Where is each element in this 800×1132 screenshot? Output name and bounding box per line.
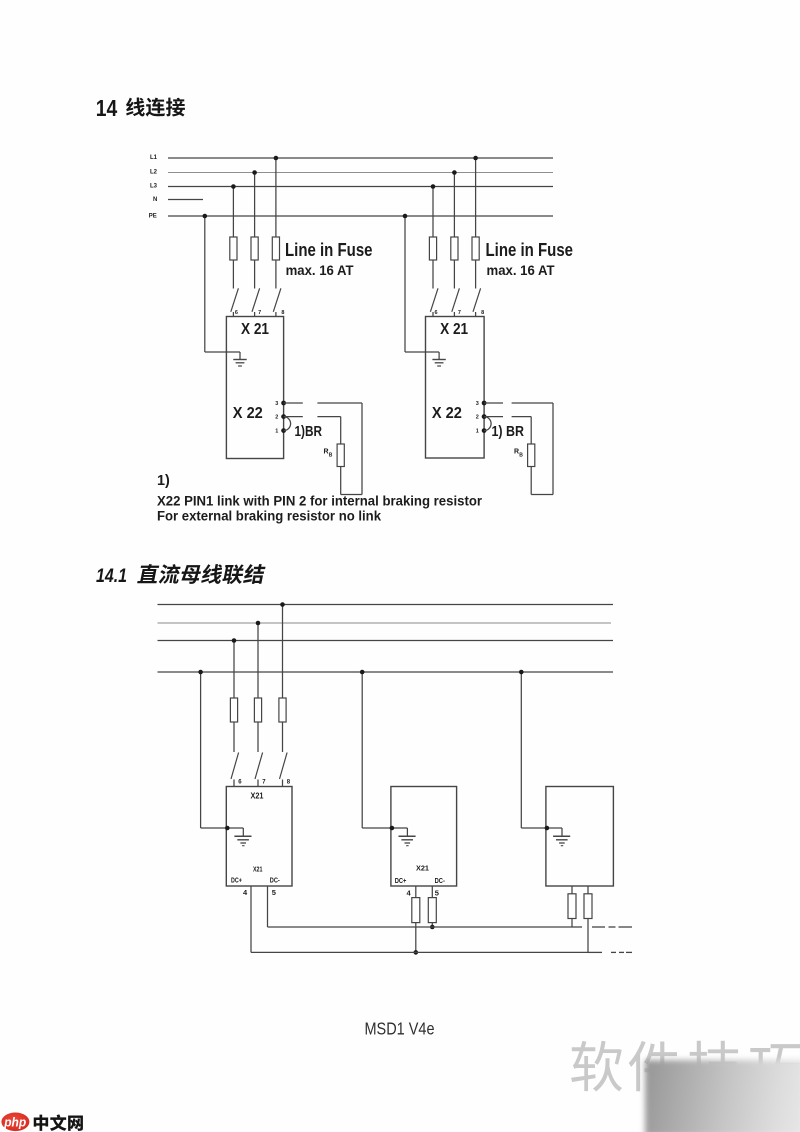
svg-text:1: 1: [275, 428, 278, 434]
svg-text:6: 6: [238, 780, 242, 786]
svg-text:Line in Fuse: Line in Fuse: [486, 240, 574, 260]
svg-text:2: 2: [275, 414, 278, 420]
svg-text:1) BR: 1) BR: [492, 424, 525, 440]
svg-text:DC+: DC+: [231, 877, 242, 884]
svg-text:14: 14: [96, 95, 118, 121]
svg-text:L3: L3: [150, 184, 158, 190]
svg-text:DC+: DC+: [395, 878, 407, 885]
svg-text:6: 6: [435, 310, 438, 316]
svg-text:7: 7: [262, 780, 266, 786]
svg-text:3: 3: [275, 401, 278, 407]
svg-text:N: N: [153, 197, 157, 203]
svg-text:X21: X21: [251, 792, 265, 801]
svg-text:7: 7: [258, 310, 261, 316]
svg-text:1)BR: 1)BR: [295, 424, 323, 440]
svg-text:3: 3: [476, 401, 479, 407]
svg-text:5: 5: [272, 888, 276, 897]
svg-text:X22 PIN1 link with PIN 2 for i: X22 PIN1 link with PIN 2 for internal br…: [157, 494, 483, 509]
svg-text:7: 7: [458, 310, 461, 316]
svg-text:1): 1): [157, 473, 170, 489]
svg-text:max. 16 AT: max. 16 AT: [286, 263, 355, 278]
svg-text:For external braking resistor: For external braking resistor no link: [157, 508, 381, 523]
svg-text:4: 4: [243, 888, 248, 897]
svg-text:X 22: X 22: [432, 405, 462, 422]
svg-text:max. 16 AT: max. 16 AT: [487, 263, 556, 278]
svg-text:B: B: [329, 453, 333, 459]
svg-text:6: 6: [235, 310, 238, 316]
svg-text:X 22: X 22: [233, 405, 263, 422]
svg-text:5: 5: [435, 889, 439, 898]
svg-text:X21: X21: [416, 864, 429, 873]
svg-text:B: B: [519, 453, 523, 459]
svg-text:8: 8: [481, 310, 484, 316]
svg-text:4: 4: [407, 889, 412, 898]
svg-text:8: 8: [281, 310, 284, 316]
svg-text:1: 1: [476, 428, 479, 434]
svg-text:X21: X21: [253, 865, 263, 874]
svg-text:DC-: DC-: [270, 877, 281, 884]
svg-text:DC-: DC-: [435, 878, 446, 885]
svg-text:php: php: [3, 1114, 26, 1129]
svg-text:X 21: X 21: [440, 321, 468, 338]
svg-text:MSD1 V4e: MSD1 V4e: [365, 1019, 435, 1039]
svg-text:PE: PE: [149, 213, 157, 219]
svg-text:X 21: X 21: [241, 321, 269, 338]
svg-text:Line in Fuse: Line in Fuse: [285, 240, 373, 260]
svg-text:2: 2: [476, 414, 479, 420]
svg-text:14.1: 14.1: [96, 566, 127, 587]
svg-text:L2: L2: [150, 170, 158, 176]
svg-text:8: 8: [287, 780, 291, 786]
svg-text:L1: L1: [150, 155, 158, 161]
